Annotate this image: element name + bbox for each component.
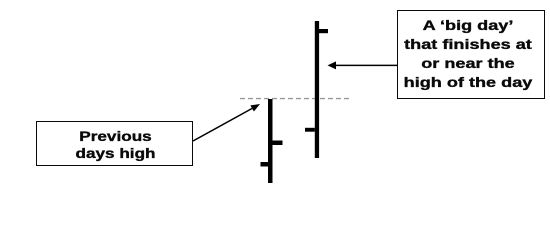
bar 2 open tick (left) xyxy=(305,128,315,132)
bar 2 (big day) vertical range xyxy=(315,21,319,158)
bar 1 close tick (right) xyxy=(272,141,283,146)
arrow from "Previous days high" box to bar 1 high xyxy=(193,108,252,141)
arrow from "big day" box to bar 2 xyxy=(336,64,397,66)
bar 1 (previous day) vertical range xyxy=(268,99,273,183)
bar 1 open tick (left) xyxy=(261,162,269,167)
label box: A 'big day' that finishes at or near the high of the day xyxy=(397,10,545,100)
dashed line: previous day's high level xyxy=(240,98,350,100)
label box: Previous days high xyxy=(36,121,193,166)
bar 2 close tick (right, near high) xyxy=(319,29,328,33)
